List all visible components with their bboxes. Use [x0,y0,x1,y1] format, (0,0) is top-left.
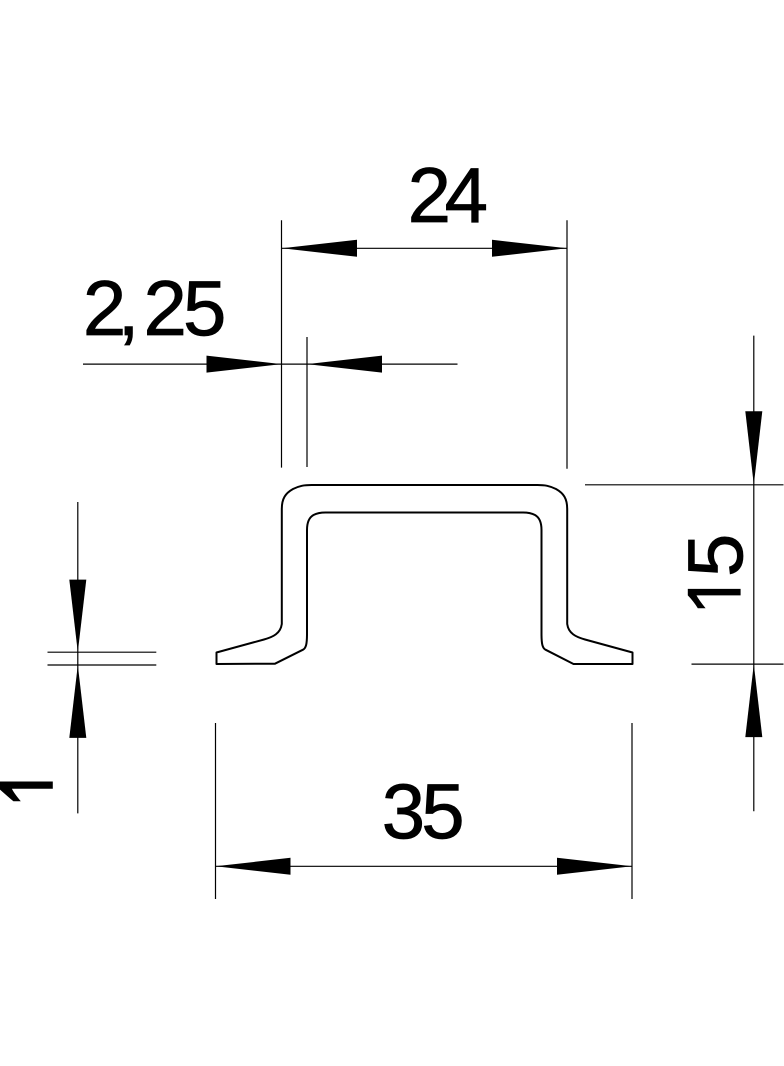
arrowhead 15 bottom [745,664,762,737]
extension line left of 35 [215,723,217,899]
dimension line 35 [216,865,633,867]
arrowhead 15 top [745,411,762,485]
arrowhead 2,25 left [207,356,282,373]
svg-text:5: 5 [671,534,759,577]
dimension text 15 (rotated): digit 1 drawn as path [688,589,741,608]
dimension line 15 [753,336,755,812]
extension line right of 24 [566,220,568,468]
svg-text:2,25: 2,25 [83,264,226,352]
extension line top of 1 [48,651,157,653]
dimension text 1 (rotated, drawn as path) [0,782,53,802]
arrowhead 24 right [492,240,567,257]
svg-text:35: 35 [382,767,465,855]
extension line right of 2,25 [306,337,308,467]
arrowhead 35 left [216,858,291,875]
extension line bottom of 1 [48,664,157,666]
extension line top of 15 [585,484,784,486]
arrowhead 24 left [282,240,357,257]
arrowhead 35 right [557,858,632,875]
extension line left of 24 [281,220,283,467]
dimension line 1 [77,502,79,813]
svg-text:24: 24 [408,151,488,239]
extension line right of 35 [631,723,633,899]
dimension line 24 [282,247,567,249]
arrowhead 1 bottom [69,665,86,738]
dimension line 2,25 with leaders [83,363,458,365]
arrowhead 1 top [69,580,86,653]
profile outline (top-hat rail cross-section) [217,485,633,664]
extension line bottom of 15 [692,663,784,665]
arrowhead 2,25 right [307,356,382,373]
